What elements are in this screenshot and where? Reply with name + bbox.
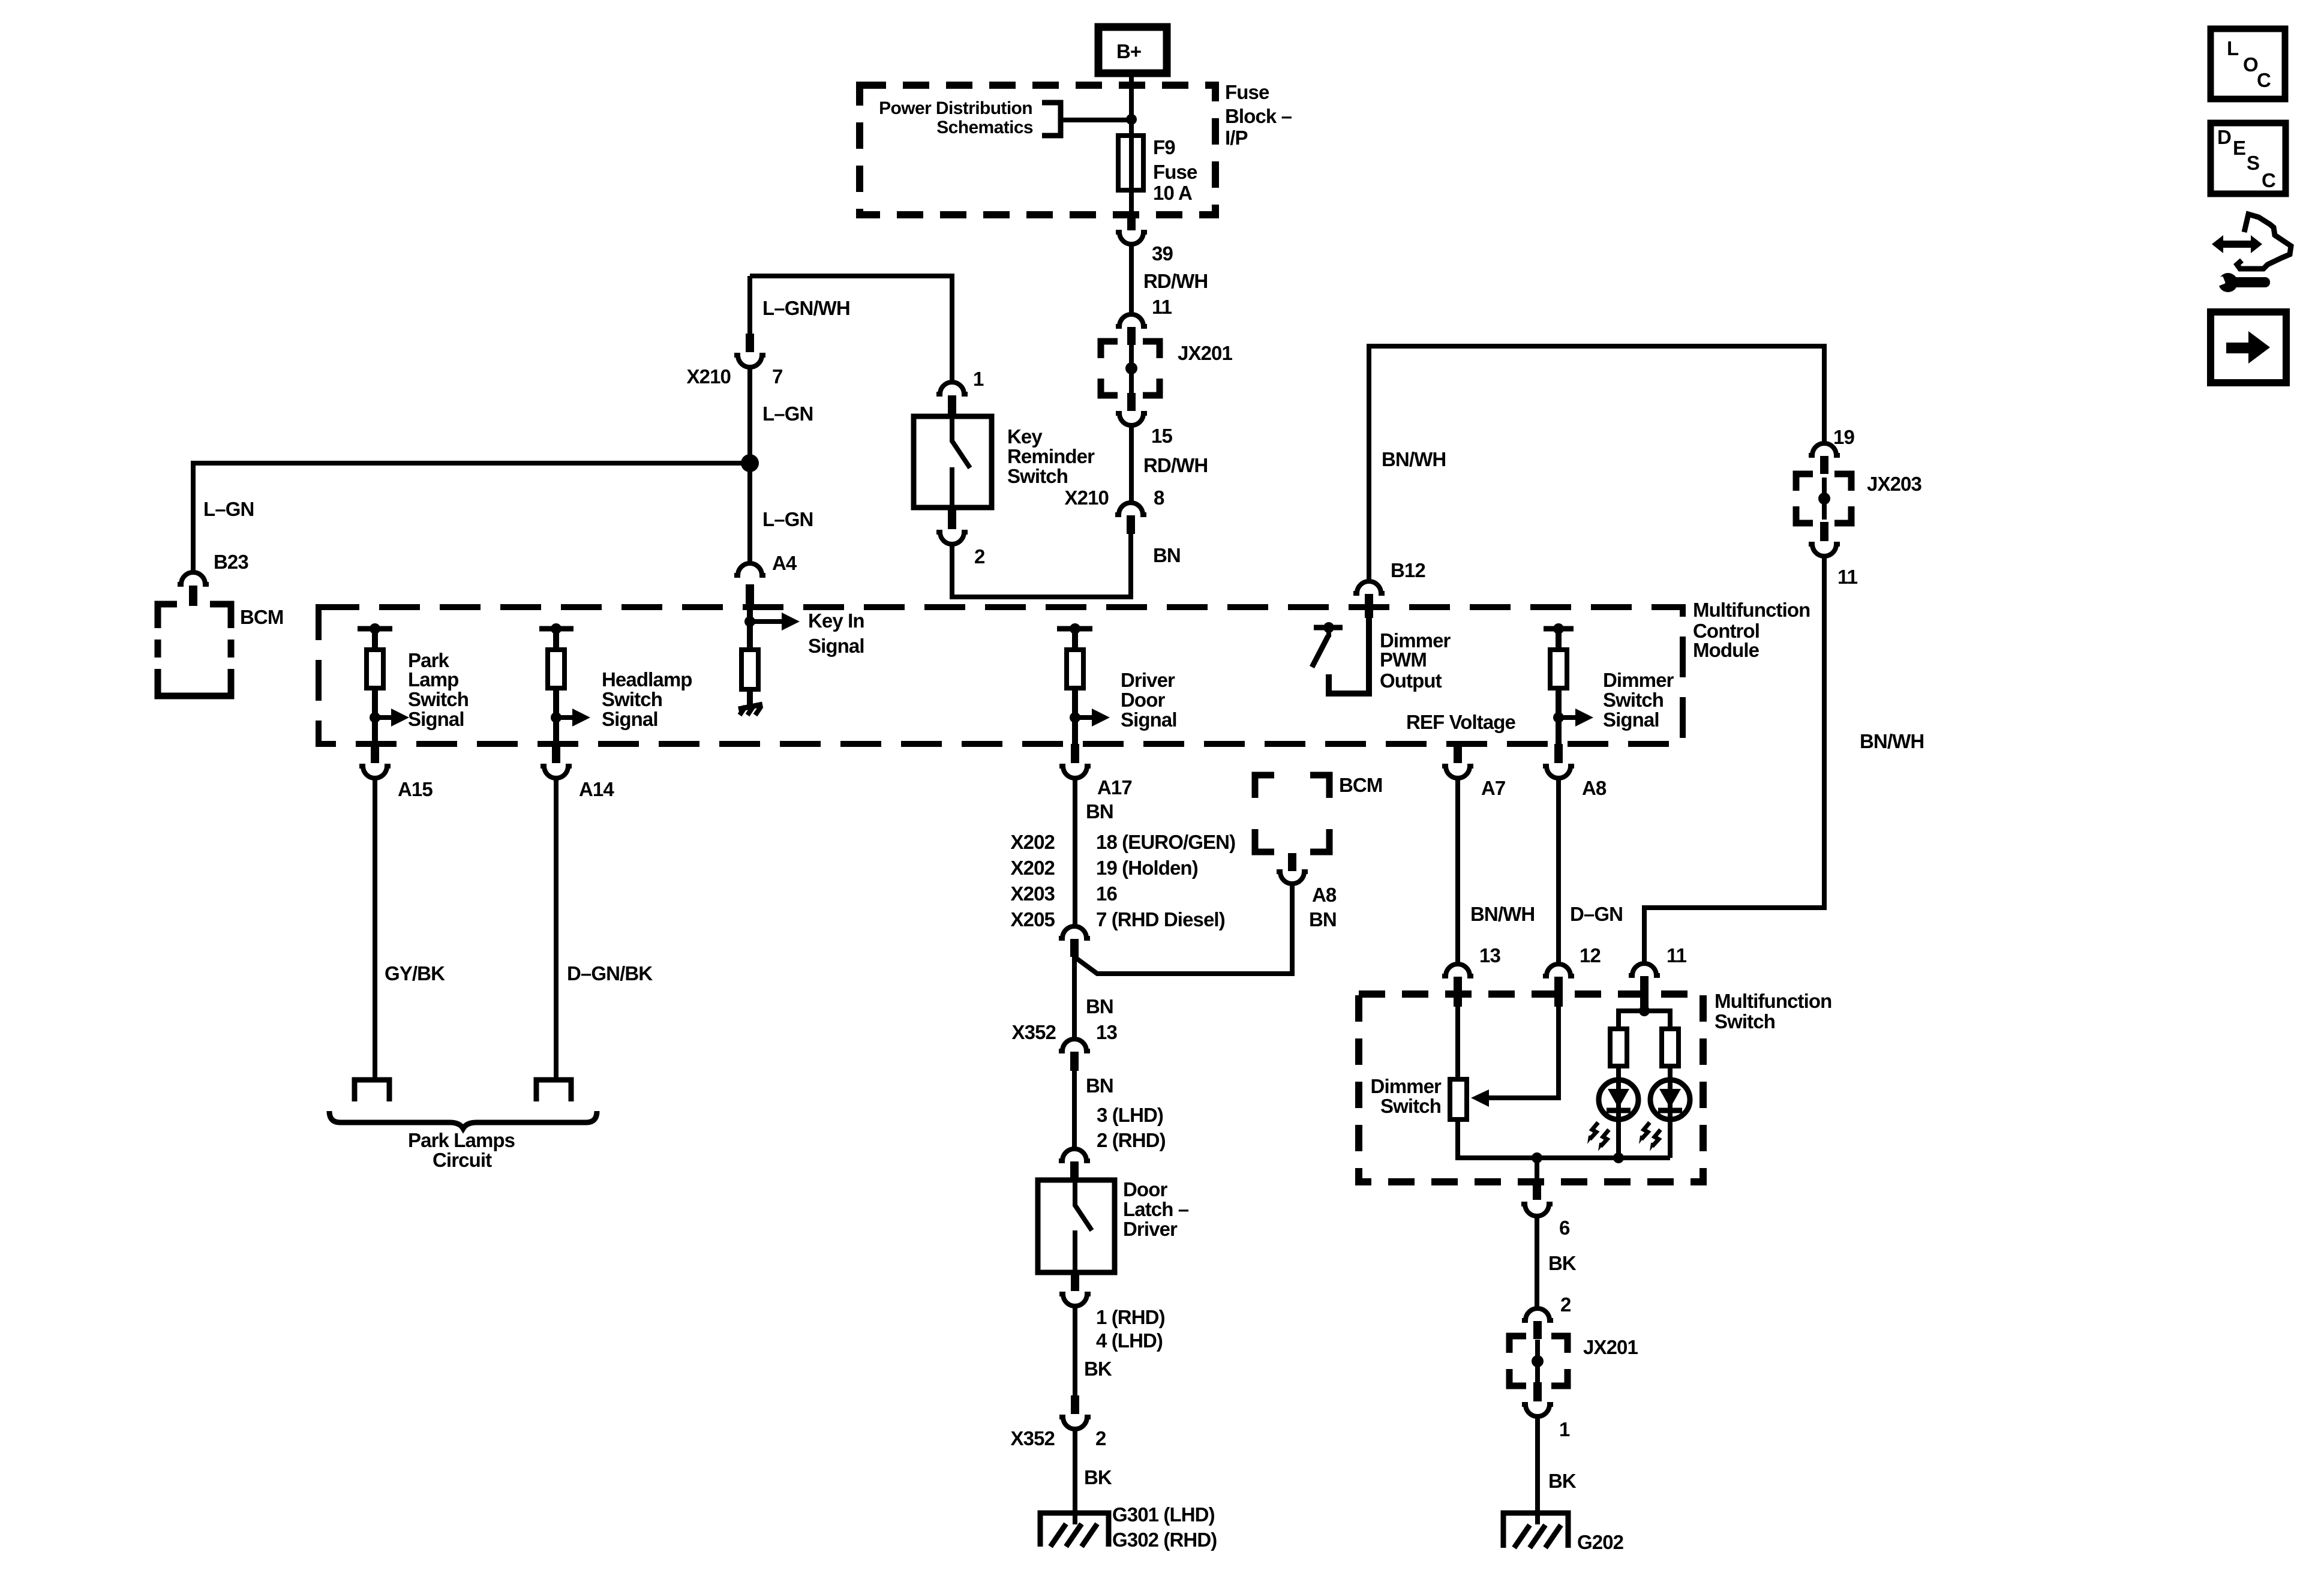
- ground key in signal: [738, 689, 762, 715]
- wire GY/BK: [373, 779, 377, 1079]
- bracket to power distribution: [1042, 103, 1061, 136]
- svg-text:4 (LHD): 4 (LHD): [1096, 1329, 1163, 1352]
- label Dimmer Switch Signal: [1603, 669, 1674, 731]
- junction pin 11 split: [1619, 1005, 1670, 1029]
- resistor LED right: [1662, 1029, 1679, 1066]
- junction block JX203: [1796, 473, 1921, 523]
- terminal JX201 lower bottom: [1522, 1382, 1570, 1440]
- svg-text:Reminder: Reminder: [1007, 445, 1095, 467]
- LED right: [1650, 1066, 1690, 1158]
- labels X202 X202 X203 X205 rows: [1011, 831, 1236, 930]
- svg-text:Signal: Signal: [1121, 709, 1177, 731]
- svg-text:7: 7: [772, 365, 782, 388]
- lightning arrows LED right: [1639, 1122, 1661, 1151]
- svg-text:X352: X352: [1011, 1427, 1055, 1449]
- labels BN 3 LHD 2 RHD: [1086, 1074, 1166, 1151]
- svg-text:2: 2: [974, 545, 985, 568]
- svg-text:A8: A8: [1312, 884, 1337, 906]
- resistor LED left: [1610, 1029, 1627, 1066]
- wire BK to X352 2: [1073, 1307, 1077, 1395]
- connector multifunction switch pin 12: [1543, 964, 1574, 1007]
- terminal key reminder switch pin 2: [936, 508, 985, 568]
- junction dot L-GN: [741, 454, 759, 472]
- wire L-GN to BCM: [193, 463, 750, 572]
- wire BK to G202: [1535, 1417, 1540, 1524]
- svg-text:D–GN: D–GN: [1570, 903, 1623, 925]
- svg-text:A8: A8: [1582, 777, 1607, 799]
- label Headlamp Switch Signal: [602, 668, 692, 730]
- wire D-GN/BK: [554, 779, 559, 1079]
- wire BN/WH to 13: [1455, 779, 1460, 963]
- resistor dimmer switch signal: [1550, 650, 1567, 688]
- label Multifunction Switch: [1715, 990, 1831, 1032]
- terminal A15: [359, 744, 433, 800]
- B+ power symbol: [1098, 27, 1167, 73]
- svg-text:F9: F9: [1153, 136, 1175, 158]
- svg-text:15: 15: [1151, 425, 1172, 447]
- resistor headlamp: [548, 650, 565, 688]
- svg-text:3 (LHD): 3 (LHD): [1097, 1104, 1163, 1126]
- terminal A4: [734, 563, 765, 606]
- terminal park lamps right: [536, 1080, 571, 1101]
- svg-text:BK: BK: [1548, 1470, 1577, 1492]
- svg-text:A15: A15: [398, 778, 433, 800]
- svg-text:Multifunction: Multifunction: [1715, 990, 1831, 1012]
- svg-text:Latch –: Latch –: [1123, 1198, 1189, 1220]
- driver door junction and arrow: [1070, 688, 1110, 744]
- label Power Distribution Schematics: [879, 98, 1033, 137]
- park lamp switch branch: [358, 623, 392, 650]
- svg-text:1: 1: [973, 368, 984, 390]
- svg-text:X352: X352: [1012, 1021, 1056, 1043]
- wire BN to door latch: [1072, 1071, 1077, 1148]
- svg-text:BN/WH: BN/WH: [1382, 448, 1446, 470]
- terminal A7: [1442, 744, 1505, 799]
- svg-text:GY/BK: GY/BK: [385, 962, 445, 984]
- svg-text:Switch: Switch: [602, 688, 662, 710]
- svg-text:RD/WH: RD/WH: [1143, 270, 1208, 292]
- terminal BCM B23: [178, 572, 209, 606]
- svg-text:1 (RHD): 1 (RHD): [1096, 1306, 1165, 1328]
- svg-text:L–GN: L–GN: [203, 498, 254, 520]
- fuse F9 10A: [1118, 136, 1143, 190]
- svg-text:18 (EURO/GEN): 18 (EURO/GEN): [1096, 831, 1235, 853]
- svg-text:Block –: Block –: [1225, 105, 1292, 127]
- wire 15 RD/WH: [1129, 426, 1134, 503]
- svg-text:Switch: Switch: [1380, 1095, 1441, 1117]
- svg-text:D–GN/BK: D–GN/BK: [567, 962, 653, 984]
- resistor driver door: [1067, 650, 1083, 688]
- headlamp switch branch: [539, 623, 574, 650]
- LED left: [1599, 1066, 1638, 1158]
- junction block JX201: [1101, 341, 1232, 395]
- svg-text:Output: Output: [1380, 670, 1442, 692]
- svg-text:Door: Door: [1121, 689, 1165, 711]
- wire D-GN to 12: [1556, 779, 1561, 963]
- label Multifunction Control Module: [1693, 599, 1810, 661]
- svg-text:BCM: BCM: [1339, 774, 1382, 796]
- terminal door latch top: [1059, 1149, 1090, 1180]
- svg-text:19 (Holden): 19 (Holden): [1096, 857, 1198, 879]
- key reminder switch pin 1 wire: [750, 276, 952, 382]
- terminal park lamps left: [355, 1080, 389, 1101]
- svg-text:BN/WH: BN/WH: [1860, 730, 1924, 752]
- headlamp junction and arrow: [551, 688, 590, 744]
- multifunction control module dashed box: [319, 607, 1683, 744]
- wire BN to X352 13: [1072, 957, 1077, 1038]
- svg-text:BCM: BCM: [240, 606, 283, 628]
- svg-text:B+: B+: [1116, 40, 1141, 62]
- label Fuse Block - I/P: [1225, 81, 1292, 149]
- svg-text:BK: BK: [1084, 1358, 1112, 1380]
- svg-text:11: 11: [1152, 296, 1172, 318]
- svg-text:Driver: Driver: [1123, 1218, 1178, 1240]
- svg-text:Circuit: Circuit: [433, 1149, 492, 1171]
- icon DESC: [2211, 123, 2286, 194]
- svg-text:Switch: Switch: [1603, 689, 1664, 711]
- svg-text:X203: X203: [1011, 882, 1055, 905]
- svg-text:Fuse: Fuse: [1153, 161, 1197, 183]
- svg-text:Door: Door: [1123, 1178, 1167, 1200]
- icon arrow box: [2211, 312, 2286, 383]
- svg-text:X202: X202: [1011, 831, 1055, 853]
- lightning arrows LED left: [1587, 1122, 1609, 1151]
- svg-text:13: 13: [1096, 1021, 1117, 1043]
- svg-text:Switch: Switch: [408, 688, 469, 710]
- terminal multifunction switch pin 6: [1521, 1158, 1570, 1239]
- wire branch to BCM A8: [1074, 884, 1292, 974]
- svg-text:REF Voltage: REF Voltage: [1406, 711, 1516, 733]
- svg-text:6: 6: [1559, 1217, 1570, 1239]
- terminal A8 module: [1543, 744, 1607, 799]
- label Driver Door Signal: [1121, 669, 1177, 731]
- wire pot output: [1458, 1119, 1670, 1158]
- terminal A17: [1059, 744, 1132, 798]
- svg-text:BN: BN: [1309, 908, 1337, 930]
- connector X352 pin 13: [1012, 1021, 1118, 1071]
- label 15 RD/WH: [1143, 425, 1208, 476]
- svg-text:B23: B23: [214, 551, 248, 573]
- svg-text:C: C: [2262, 169, 2275, 191]
- svg-text:JX201: JX201: [1178, 342, 1232, 364]
- terminal B12: [1353, 581, 1385, 618]
- svg-text:10 A: 10 A: [1153, 182, 1192, 204]
- junction node: [1126, 114, 1137, 125]
- terminal at fuse block output: [1116, 213, 1147, 244]
- svg-text:Signal: Signal: [808, 635, 864, 657]
- multifunction switch dashed box: [1359, 994, 1703, 1182]
- connector X210 pin 7: [687, 276, 783, 388]
- svg-text:X210: X210: [1065, 487, 1109, 509]
- svg-text:X202: X202: [1011, 857, 1055, 879]
- wire bracket to B+ feed: [1061, 118, 1131, 122]
- svg-text:Signal: Signal: [1603, 709, 1659, 731]
- dimmer switch signal junction and arrow: [1553, 688, 1593, 744]
- svg-text:Dimmer: Dimmer: [1371, 1075, 1442, 1097]
- brace park lamps circuit: [329, 1111, 597, 1128]
- svg-text:C: C: [2257, 69, 2271, 91]
- svg-text:I/P: I/P: [1225, 127, 1248, 149]
- svg-text:JX203: JX203: [1867, 473, 1921, 495]
- svg-text:A4: A4: [772, 552, 797, 574]
- svg-text:Key: Key: [1007, 425, 1043, 448]
- svg-text:7 (RHD Diesel): 7 (RHD Diesel): [1096, 908, 1225, 930]
- svg-text:L–GN/WH: L–GN/WH: [762, 297, 850, 319]
- ground G202: [1503, 1513, 1624, 1553]
- svg-text:Driver: Driver: [1121, 669, 1175, 691]
- svg-text:Key In: Key In: [808, 610, 864, 632]
- wire BN/WH top right run: [1369, 346, 1824, 581]
- driver door switch branch: [1057, 623, 1092, 650]
- ground G301 G302: [1040, 1503, 1217, 1551]
- icon LOC: [2211, 29, 2285, 99]
- svg-text:Schematics: Schematics: [936, 118, 1033, 137]
- wire BN/WH right run down: [1644, 557, 1824, 963]
- connector X352 pin 2: [1011, 1395, 1106, 1449]
- dimmer switch potentiometer: [1450, 1079, 1467, 1119]
- label Park Lamp Switch Signal: [408, 649, 469, 730]
- svg-text:2: 2: [1095, 1427, 1106, 1449]
- door latch driver switch: [1038, 1178, 1189, 1272]
- svg-text:JX201: JX201: [1583, 1336, 1638, 1358]
- svg-text:39: 39: [1152, 242, 1173, 265]
- svg-text:S: S: [2247, 152, 2259, 174]
- svg-text:Switch: Switch: [1007, 465, 1068, 487]
- svg-text:L: L: [2227, 37, 2239, 59]
- icon vehicle diagnostic: [2212, 214, 2291, 292]
- label Park Lamps Circuit: [408, 1129, 515, 1171]
- terminal JX203 bottom: [1809, 522, 1858, 588]
- label Dimmer PWM Output: [1380, 629, 1451, 692]
- svg-text:BK: BK: [1084, 1466, 1112, 1488]
- svg-text:11: 11: [1837, 566, 1858, 588]
- wire BN driver door: [1073, 779, 1077, 926]
- svg-text:13: 13: [1479, 944, 1500, 966]
- svg-text:A17: A17: [1097, 776, 1132, 798]
- svg-text:L–GN: L–GN: [762, 403, 813, 425]
- svg-text:RD/WH: RD/WH: [1143, 454, 1208, 476]
- svg-text:E: E: [2233, 137, 2245, 159]
- svg-text:Park Lamps: Park Lamps: [408, 1129, 515, 1151]
- connector multifunction switch pin 13: [1442, 964, 1473, 1007]
- terminal A14: [541, 744, 614, 800]
- svg-text:BN: BN: [1086, 800, 1113, 822]
- svg-text:Headlamp: Headlamp: [602, 668, 692, 691]
- svg-text:BK: BK: [1548, 1252, 1577, 1274]
- svg-text:X210: X210: [687, 365, 731, 388]
- wire BK to ground: [1073, 1430, 1077, 1524]
- terminal JX201 pin 2: [1522, 1308, 1553, 1339]
- wire L-GN down to A4: [747, 368, 752, 563]
- terminal JX201 bottom: [1116, 393, 1147, 425]
- svg-text:2: 2: [1560, 1293, 1571, 1316]
- svg-text:G302 (RHD): G302 (RHD): [1112, 1529, 1217, 1551]
- svg-text:A7: A7: [1481, 777, 1505, 799]
- svg-text:PWM: PWM: [1380, 649, 1427, 671]
- junction block JX201 lower: [1509, 1336, 1638, 1386]
- svg-text:L–GN: L–GN: [762, 508, 813, 530]
- key in signal node: [744, 606, 864, 657]
- wire pin 13 into dimmer pot: [1455, 1007, 1460, 1079]
- BCM dashed box left: [158, 604, 231, 696]
- label Dimmer Switch: [1371, 1075, 1442, 1117]
- svg-text:O: O: [2243, 53, 2258, 76]
- svg-text:11: 11: [1667, 944, 1687, 966]
- connector X205: [1059, 926, 1090, 957]
- dimmer switch signal branch: [1544, 623, 1574, 650]
- svg-text:BN/WH: BN/WH: [1470, 903, 1535, 925]
- resistor park lamp: [367, 650, 383, 688]
- svg-text:Multifunction: Multifunction: [1693, 599, 1810, 621]
- svg-text:BN: BN: [1086, 995, 1113, 1017]
- svg-text:Lamp: Lamp: [408, 668, 458, 691]
- park lamp junction and arrow: [370, 688, 409, 744]
- resistor key in signal: [741, 650, 758, 689]
- svg-text:G202: G202: [1577, 1531, 1624, 1553]
- svg-text:2 (RHD): 2 (RHD): [1097, 1129, 1166, 1151]
- wire 39 RD/WH: [1129, 245, 1134, 314]
- svg-text:12: 12: [1580, 944, 1601, 966]
- terminal JX201 pin 11: [1116, 314, 1147, 345]
- terminal door latch bottom: [1059, 1272, 1091, 1306]
- svg-text:B12: B12: [1391, 559, 1425, 581]
- svg-text:D: D: [2217, 126, 2231, 148]
- connector multifunction switch pin 11: [1629, 963, 1660, 1008]
- junction dots bottom rail: [1613, 1152, 1624, 1163]
- wire BN elbow to key reminder switch pin 2: [952, 534, 1131, 597]
- terminal JX203 pin 19: [1809, 443, 1840, 474]
- terminal key reminder switch pin 1: [936, 382, 968, 417]
- svg-text:Signal: Signal: [602, 708, 658, 730]
- svg-text:1: 1: [1559, 1418, 1570, 1440]
- fuse block I/P dashed box: [860, 85, 1215, 215]
- svg-text:Module: Module: [1693, 639, 1759, 661]
- terminal BCM A8: [1277, 853, 1337, 930]
- svg-text:Dimmer: Dimmer: [1603, 669, 1674, 691]
- wire pin 12 to pot arrow: [1488, 1007, 1559, 1098]
- label F9 Fuse 10 A: [1153, 136, 1197, 204]
- svg-text:Fuse: Fuse: [1225, 81, 1269, 103]
- label 39 RD/WH 11: [1143, 242, 1208, 318]
- svg-text:Power Distribution: Power Distribution: [879, 98, 1032, 118]
- svg-text:BN: BN: [1153, 544, 1181, 566]
- svg-text:16: 16: [1096, 882, 1117, 905]
- svg-text:Switch: Switch: [1715, 1010, 1775, 1032]
- svg-text:19: 19: [1833, 426, 1854, 448]
- wire B+ down through fuse: [1129, 73, 1134, 215]
- svg-text:A14: A14: [579, 778, 614, 800]
- dimmer PWM output switch: [1312, 618, 1369, 694]
- svg-text:X205: X205: [1011, 908, 1055, 930]
- svg-text:Signal: Signal: [408, 708, 464, 730]
- BCM dashed box middle: [1255, 775, 1329, 852]
- wire BK to JX201: [1535, 1217, 1539, 1308]
- svg-text:BN: BN: [1086, 1074, 1113, 1097]
- svg-text:G301 (LHD): G301 (LHD): [1112, 1503, 1215, 1526]
- svg-text:8: 8: [1154, 487, 1164, 509]
- connector X210 pin 8: [1065, 487, 1164, 534]
- labels 1 RHD 4 LHD BK: [1084, 1306, 1165, 1380]
- key reminder switch: [914, 416, 1095, 508]
